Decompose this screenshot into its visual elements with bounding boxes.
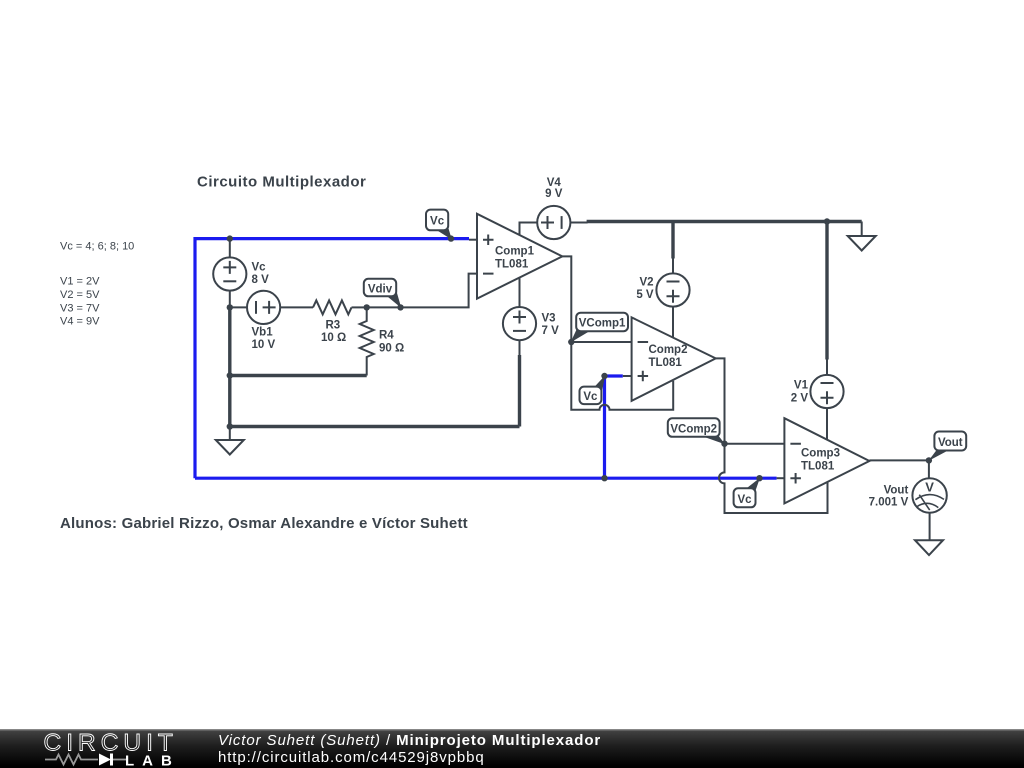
svg-text:Comp3: Comp3	[801, 448, 840, 460]
wire Comp2 V- pin loop with hop over blue riser	[571, 342, 673, 410]
junction node at Vc/Vb1	[227, 304, 233, 310]
op-amp U2 Comp2 TL081	[632, 317, 716, 401]
ground (top right)	[848, 236, 876, 251]
svg-text:V3 = 7V: V3 = 7V	[60, 302, 100, 314]
svg-text:Vb1: Vb1	[252, 326, 274, 338]
svg-text:V2: V2	[640, 276, 654, 288]
wire V1 top lead	[826, 359, 828, 375]
svg-text:8 V: 8 V	[252, 274, 270, 286]
junction node VComp2	[721, 441, 727, 447]
wire V1 bottom lead to Comp3 V+ pin	[826, 408, 828, 440]
wire Comp3 + input stub	[777, 477, 785, 479]
wire node VComp2 to Comp3 - input	[725, 443, 785, 445]
wire node Vout down to voltmeter	[928, 460, 930, 478]
resistor R4 90Ω	[360, 307, 374, 375]
wire top right ground stub	[861, 222, 863, 237]
svg-text:R3: R3	[326, 319, 341, 331]
wire thick top rail V4 to ground	[587, 220, 862, 223]
footer url	[218, 750, 485, 765]
wire Comp1 V- pin to V3 top	[519, 278, 521, 307]
voltage source Vc 8V	[213, 257, 246, 290]
wire Vc source top lead	[229, 239, 231, 258]
wire thick R4 bottom rail	[230, 374, 367, 377]
voltage source V2 5V	[656, 273, 689, 306]
footer author / project title	[218, 733, 601, 748]
svg-text:V3: V3	[542, 313, 556, 325]
svg-text:TL081: TL081	[649, 357, 683, 369]
wire blue net Vc: left vertical + top horizontal to Comp1 + input	[195, 239, 469, 479]
wire thick left ground column	[228, 307, 231, 426]
svg-text:VComp2: VComp2	[670, 423, 717, 435]
svg-text:Alunos: Gabriel Rizzo, Osmar A: Alunos: Gabriel Rizzo, Osmar Alexandre e…	[60, 515, 468, 532]
svg-text:Comp1: Comp1	[495, 245, 535, 257]
svg-text:7 V: 7 V	[542, 325, 560, 337]
junction node Vdiv at R3/R4	[364, 304, 370, 310]
footer bar	[0, 729, 1024, 768]
voltage source V3 7V	[503, 307, 536, 340]
wire Comp2 output down to node VComp2	[716, 358, 725, 443]
flag Vc (at Comp3 + input)	[734, 478, 760, 508]
logo resistor zigzag	[45, 755, 98, 765]
svg-text:7.001 V: 7.001 V	[869, 497, 909, 509]
svg-text:V1: V1	[794, 380, 809, 392]
wire voltmeter bottom to ground	[929, 513, 931, 541]
svg-text:5 V: 5 V	[636, 289, 654, 301]
junction dot flag Vdiv attach	[397, 304, 403, 310]
wire thick riser to V1	[825, 222, 828, 360]
wire blue net Vc: riser to Comp2 + input	[605, 376, 623, 478]
svg-text:V4 = 9V: V4 = 9V	[60, 316, 100, 328]
svg-text:V: V	[925, 480, 934, 495]
junction node at ground rail	[227, 423, 233, 429]
svg-text:TL081: TL081	[495, 258, 529, 270]
junction dot at Comp2 + input blue	[601, 373, 607, 379]
flag Vc (at Comp2 + input)	[580, 375, 606, 404]
svg-text:Vc: Vc	[737, 494, 752, 506]
wire V3 bottom lead	[519, 340, 521, 356]
junction node at R4 bottom rail	[227, 372, 233, 378]
svg-text:Comp2: Comp2	[649, 344, 688, 356]
svg-text:2 V: 2 V	[791, 392, 809, 404]
junction node VComp1	[568, 339, 574, 345]
svg-text:V4: V4	[547, 177, 562, 189]
wire V2 top thick lead	[671, 222, 674, 259]
svg-text:R4: R4	[379, 329, 394, 341]
flag Vc (top, on blue wire)	[426, 210, 452, 240]
svg-text:90 Ω: 90 Ω	[379, 343, 404, 355]
flag Vout	[928, 432, 966, 462]
wire V2 bottom lead to Comp2 V+ pin	[672, 307, 674, 338]
junction node Vout	[926, 457, 932, 463]
logo diode	[99, 754, 111, 766]
wire V4 right lead	[570, 222, 587, 224]
voltage source V4 9V (battery, horizontal)	[537, 206, 570, 239]
svg-text:Vc = 4; 6; 8; 10: Vc = 4; 6; 8; 10	[60, 241, 134, 253]
wire blue net Vc: bottom horizontal run	[195, 477, 777, 480]
svg-text:Vc: Vc	[430, 216, 445, 228]
wire thick bottom ground rail	[228, 425, 519, 428]
wire Vb1 right lead to R3	[280, 306, 313, 308]
wire V2 top lead	[672, 258, 674, 273]
wire thick V3 to ground rail	[518, 355, 521, 427]
resistor R3 10Ω	[313, 300, 351, 314]
wire Comp1 output down to node VComp1	[562, 256, 571, 342]
ground (below voltmeter)	[915, 540, 943, 555]
flag VComp1	[571, 313, 629, 343]
junction dot flag Vc attach	[448, 235, 454, 241]
wire Comp3 output to node Vout	[869, 459, 929, 461]
svg-text:Vdiv: Vdiv	[368, 283, 393, 295]
ground (left, below Vc column)	[216, 427, 244, 455]
voltage source V1 2V	[810, 375, 843, 408]
wire Vc source bottom lead	[229, 291, 231, 308]
voltmeter Vout	[912, 478, 946, 512]
junction dot on blue wire at Vc source	[227, 235, 233, 241]
wire node Vdiv to Comp1 - input jog	[367, 274, 477, 308]
voltage source Vb1 10V (battery, horizontal)	[247, 291, 280, 324]
junction dot flag Vc attach on blue run	[756, 475, 762, 481]
svg-text:Circuito Multiplexador: Circuito Multiplexador	[197, 174, 366, 191]
svg-text:VComp1: VComp1	[579, 318, 626, 330]
svg-text:10 V: 10 V	[252, 339, 276, 351]
CircuitLab logo	[0, 729, 200, 768]
wire R3 right lead to node Vdiv	[352, 306, 367, 308]
wire Comp3 V- pin loop with hop over blue run	[719, 444, 827, 513]
wire Comp1 + input stub	[469, 239, 477, 241]
svg-text:10 Ω: 10 Ω	[321, 332, 346, 344]
wire Comp1 V+ pin to V4 left terminal	[520, 223, 538, 236]
svg-text:V1 = 2V: V1 = 2V	[60, 275, 100, 287]
svg-text:Vc: Vc	[583, 391, 598, 403]
svg-text:Vout: Vout	[938, 437, 963, 449]
svg-text:Vc: Vc	[252, 261, 267, 273]
wire node VComp1 to Comp2 - input	[571, 341, 631, 343]
junction dot on blue bottom run	[601, 475, 607, 481]
flag Vdiv	[364, 279, 402, 308]
svg-text:TL081: TL081	[801, 461, 835, 473]
svg-text:V2 = 5V: V2 = 5V	[60, 289, 100, 301]
flag VComp2	[668, 418, 725, 444]
svg-text:LAB: LAB	[125, 753, 180, 768]
op-amp U1 Comp1 TL081	[477, 214, 562, 299]
svg-text:9 V: 9 V	[545, 188, 563, 200]
junction node on top rail to V1	[824, 218, 830, 224]
svg-text:Vout: Vout	[884, 484, 909, 496]
wire Vb1 left lead	[230, 306, 247, 308]
wire Comp2 + input stub	[623, 375, 632, 377]
op-amp U3 Comp3 TL081	[784, 418, 869, 503]
